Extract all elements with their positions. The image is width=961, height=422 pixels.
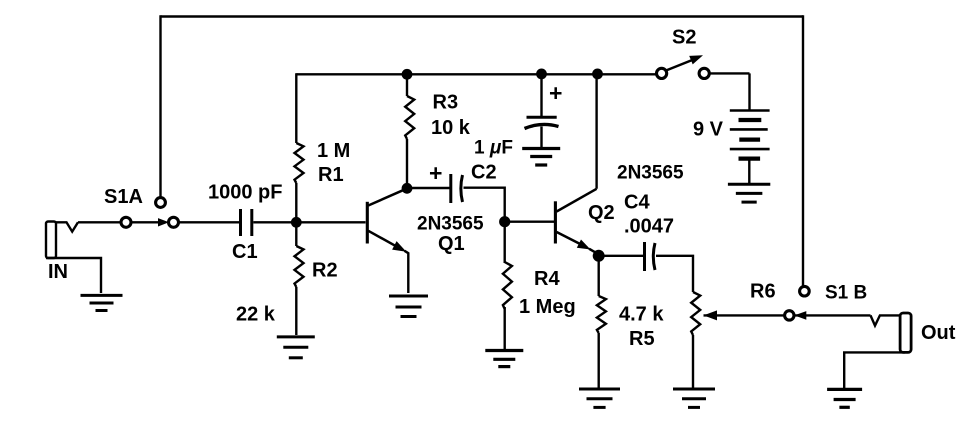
wire Out jack to S1B with arrow bbox=[794, 311, 870, 320]
potentiometer R6 bbox=[691, 292, 700, 335]
node D (Q2 emitter node) bbox=[593, 250, 605, 262]
capacitor 1uF electrolytic bbox=[525, 117, 559, 128]
switch S1A output contact bbox=[169, 217, 179, 227]
svg-text:22 k: 22 k bbox=[236, 304, 276, 326]
wire node D to R5 bbox=[598, 260, 600, 296]
node C (Q2 base node) bbox=[499, 216, 510, 227]
node rail-R3 bbox=[402, 69, 413, 80]
svg-text:.0047: .0047 bbox=[624, 216, 674, 238]
wire input to S1A bbox=[78, 221, 121, 223]
wire node C to Q2 base bbox=[508, 220, 554, 222]
resistor R3 bbox=[405, 96, 414, 139]
ground 1uF bbox=[522, 149, 560, 166]
wire R3 to node B bbox=[406, 139, 408, 185]
R6 wiper arrow bbox=[704, 310, 785, 320]
svg-text:1 μF: 1 μF bbox=[474, 138, 513, 159]
svg-text:R3: R3 bbox=[433, 92, 459, 114]
svg-text:S1A: S1A bbox=[104, 186, 143, 208]
svg-text:C2: C2 bbox=[471, 162, 497, 184]
ground R5 bbox=[579, 389, 620, 407]
wire C1 to node A bbox=[253, 221, 294, 223]
wire node D to C4 bbox=[604, 255, 643, 257]
svg-text:R5: R5 bbox=[629, 328, 655, 350]
svg-text:10 k: 10 k bbox=[431, 117, 471, 139]
capacitor C1 bbox=[241, 209, 252, 236]
output jack Out bbox=[871, 313, 912, 352]
wire R6 to ground bbox=[692, 335, 694, 388]
svg-text:IN: IN bbox=[48, 261, 68, 283]
wire S1A to C1 bbox=[179, 221, 240, 223]
wire Q2 collector bbox=[557, 189, 597, 212]
ground output jack bbox=[827, 389, 862, 407]
svg-text:Q1: Q1 bbox=[438, 233, 465, 255]
wire R1 to node A bbox=[295, 183, 297, 218]
svg-text:R2: R2 bbox=[312, 260, 338, 282]
resistor R5 bbox=[597, 296, 606, 333]
node B (Q1 collector) bbox=[402, 183, 413, 194]
wire rail to R1 bbox=[295, 73, 297, 143]
svg-text:S1 B: S1 B bbox=[825, 283, 867, 304]
node rail-1uF bbox=[536, 69, 547, 80]
transistor Q2 base bar bbox=[554, 201, 557, 243]
ground battery bbox=[728, 184, 770, 202]
wire node A to R2 bbox=[295, 226, 297, 246]
resistor R1 bbox=[295, 143, 304, 183]
svg-text:1 Meg: 1 Meg bbox=[519, 296, 576, 318]
svg-text:9 V: 9 V bbox=[693, 119, 724, 141]
svg-text:Q2: Q2 bbox=[588, 202, 615, 224]
resistor R4 bbox=[503, 262, 512, 309]
svg-text:2N3565: 2N3565 bbox=[617, 163, 684, 184]
svg-text:1 M: 1 M bbox=[317, 140, 350, 162]
switch S1B wiper contact bbox=[785, 311, 794, 320]
switch S2 lever arrow bbox=[666, 55, 703, 70]
wire Out jack to ground bbox=[844, 352, 905, 388]
wire node A to Q1 base bbox=[300, 221, 366, 223]
ground R2 bbox=[277, 337, 315, 358]
wire top bypass rail bbox=[161, 15, 804, 17]
wire battery to ground bbox=[748, 159, 750, 184]
wire 1uF to ground bbox=[540, 127, 542, 148]
svg-text:R1: R1 bbox=[318, 164, 344, 186]
wire C2 to node C bbox=[464, 188, 505, 217]
wire C4 to R6 bbox=[656, 256, 693, 292]
wire node B to C2 bbox=[411, 187, 450, 189]
node rail-Q2 collector bbox=[592, 69, 603, 80]
ground Q1 emitter bbox=[389, 296, 428, 317]
wire battery riser bbox=[748, 73, 750, 110]
switch S1A wiper arrow bbox=[131, 218, 169, 226]
capacitor C2 bbox=[451, 174, 463, 203]
switch S1B throw contact (to bypass) bbox=[800, 286, 810, 296]
svg-text:C1: C1 bbox=[232, 241, 258, 263]
svg-text:S2: S2 bbox=[672, 27, 696, 49]
svg-text:1000 pF: 1000 pF bbox=[208, 182, 282, 204]
input jack IN bbox=[46, 222, 78, 259]
switch S2 contact 2 bbox=[699, 68, 709, 78]
svg-text:+: + bbox=[429, 160, 442, 186]
wire Q2 collector riser to rail bbox=[595, 75, 597, 189]
svg-text:2N3565: 2N3565 bbox=[417, 214, 484, 235]
wire R5 to ground bbox=[598, 333, 600, 388]
transistor Q1 emitter arrow bbox=[368, 231, 406, 252]
svg-text:Out: Out bbox=[921, 322, 956, 344]
battery 9V bbox=[730, 111, 770, 159]
svg-text:4.7 k: 4.7 k bbox=[619, 304, 664, 326]
switch S1A throw contact (to bypass) bbox=[156, 198, 166, 208]
ground input jack bbox=[81, 295, 123, 310]
switch S1A pole contact bbox=[121, 217, 131, 227]
svg-text:C4: C4 bbox=[624, 192, 650, 214]
wire right riser to S1B bbox=[802, 15, 804, 286]
wire R4 to ground bbox=[504, 307, 506, 349]
wire left riser to S1A bbox=[159, 15, 161, 197]
switch S2 contact 1 bbox=[657, 68, 667, 78]
svg-text:+: + bbox=[549, 80, 562, 106]
wire rail to R3 bbox=[406, 74, 408, 96]
wire V+ supply rail bbox=[296, 73, 656, 75]
wire Q1 collector bbox=[368, 189, 406, 206]
wire node C to R4 bbox=[504, 226, 506, 263]
node A (Q1 base node) bbox=[291, 217, 302, 228]
transistor Q1 base bar bbox=[366, 202, 369, 244]
ground R4 bbox=[485, 351, 523, 367]
wire R2 to ground bbox=[295, 287, 297, 335]
wire jack IN to ground bbox=[46, 258, 101, 293]
svg-text:R6: R6 bbox=[750, 281, 776, 303]
resistor R2 bbox=[295, 246, 304, 287]
wire S2 to battery bbox=[710, 72, 750, 74]
transistor Q2 emitter arrow bbox=[557, 232, 591, 250]
capacitor C4 bbox=[645, 242, 656, 271]
wire rail to 1uF cap bbox=[540, 74, 542, 117]
svg-text:R4: R4 bbox=[534, 268, 560, 290]
wire Q1 emitter to ground bbox=[405, 251, 409, 293]
ground R6 bbox=[673, 389, 715, 407]
wire Q2 emitter to node D bbox=[589, 249, 598, 254]
